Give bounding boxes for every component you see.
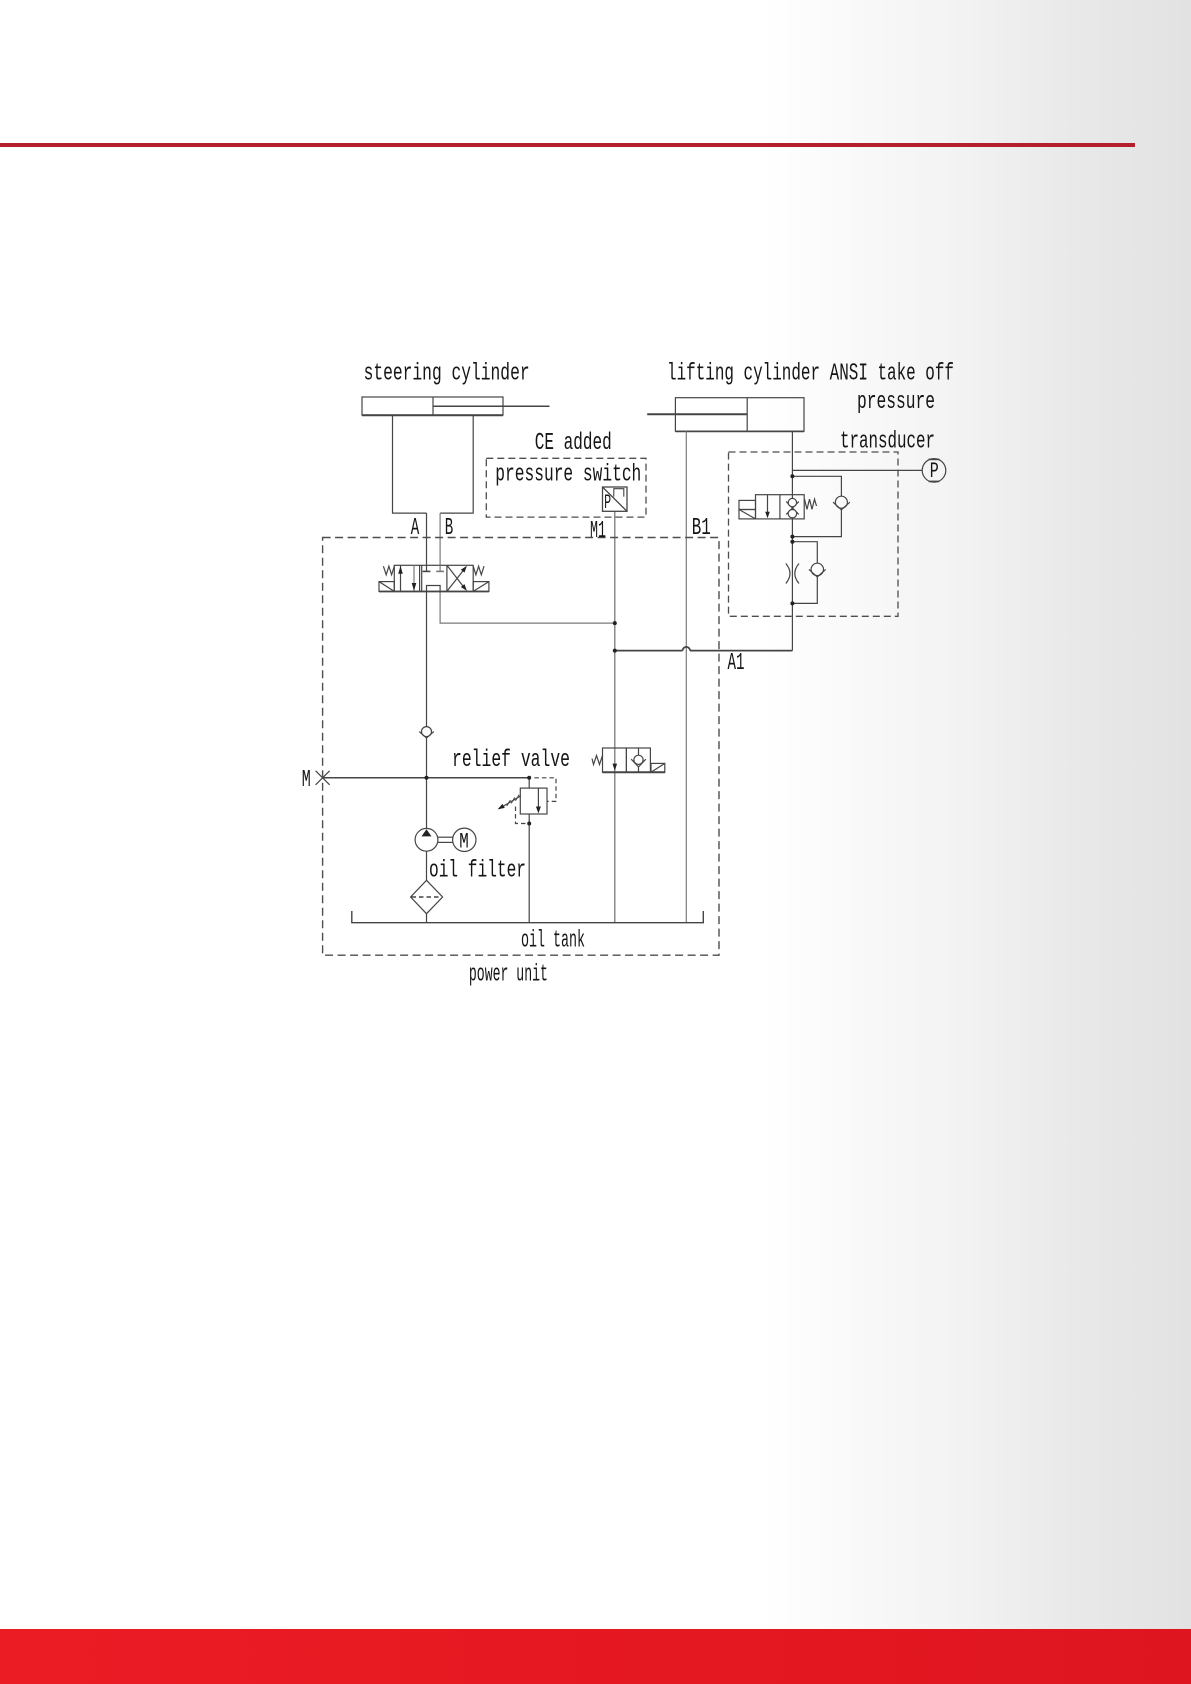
svg-text:P: P	[930, 459, 939, 484]
svg-text:power unit: power unit	[469, 962, 548, 989]
svg-text:CE added: CE added	[535, 430, 612, 457]
svg-text:B: B	[445, 515, 454, 542]
svg-text:oil tank: oil tank	[521, 927, 585, 954]
svg-text:pressure: pressure	[857, 389, 935, 416]
svg-text:lifting cylinder ANSI take off: lifting cylinder ANSI take off	[667, 361, 954, 388]
svg-text:A1: A1	[728, 650, 745, 677]
svg-text:A: A	[411, 515, 420, 542]
svg-text:M1: M1	[590, 518, 606, 545]
svg-text:transducer: transducer	[840, 429, 935, 456]
svg-text:oil filter: oil filter	[429, 858, 526, 885]
svg-text:M: M	[302, 767, 311, 794]
svg-text:relief valve: relief valve	[452, 747, 570, 774]
svg-text:P: P	[604, 492, 611, 515]
svg-text:steering cylinder: steering cylinder	[364, 361, 530, 388]
svg-text:M: M	[459, 829, 469, 854]
svg-text:B1: B1	[692, 515, 711, 542]
svg-text:pressure switch: pressure switch	[495, 461, 641, 488]
